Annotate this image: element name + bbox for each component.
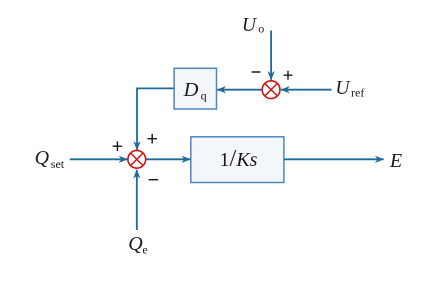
svg-text:Q: Q xyxy=(128,233,143,255)
svg-text:U: U xyxy=(335,78,351,99)
svg-text:ref: ref xyxy=(351,86,364,100)
svg-text:q: q xyxy=(201,89,207,103)
svg-text:o: o xyxy=(258,22,264,36)
svg-text:E: E xyxy=(389,150,402,172)
svg-text:Q: Q xyxy=(35,147,50,169)
svg-text:set: set xyxy=(51,157,65,171)
svg-text:1/Ks: 1/Ks xyxy=(220,145,258,172)
svg-text:D: D xyxy=(183,79,199,101)
svg-text:e: e xyxy=(142,242,147,256)
svg-text:U: U xyxy=(242,15,258,36)
